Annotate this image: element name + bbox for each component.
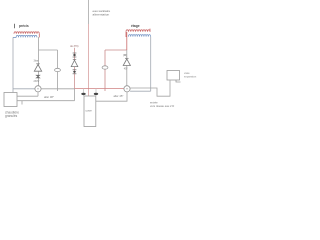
wire: left bypass vertical xyxy=(57,50,59,91)
expansion vessel box xyxy=(167,71,180,81)
svg-text:étage: étage xyxy=(131,24,140,28)
svg-text:précis: précis xyxy=(19,24,29,28)
svg-text:3bar: 3bar xyxy=(34,60,39,63)
boiler (chaudiere granules box) xyxy=(4,93,17,107)
check valve (triangle) right column xyxy=(125,57,129,59)
wire: right bypass red vertical xyxy=(104,50,106,91)
wire: red drop from loop right end to valve column xyxy=(38,34,40,38)
shutoff valve (bowtie) left column xyxy=(35,75,41,77)
svg-text:vers réseau eau 2 D: vers réseau eau 2 D xyxy=(150,104,174,108)
heating loop right (flow, red comb) xyxy=(126,30,150,32)
pump P1 (left circle) xyxy=(35,86,41,92)
heating loop left (flow, red comb) xyxy=(14,32,39,34)
wire: right circuit column red top xyxy=(126,32,128,50)
svg-text:aller 45°: aller 45° xyxy=(114,94,124,98)
wire: left return pipe down xyxy=(12,37,14,89)
svg-text:(M): (M) xyxy=(123,53,127,57)
wire: tank stub right (faint) xyxy=(95,89,97,96)
valve (dark bowtie) tank stub right xyxy=(94,93,98,95)
valve (bowtie) middle bottom xyxy=(73,69,77,71)
wire: boiler lower port to mixing column xyxy=(17,100,75,102)
heating loop right (return, blue comb) xyxy=(129,35,151,37)
wire: tank stub left (faint) xyxy=(83,89,85,96)
wire: boiler upper port to pump xyxy=(17,95,38,97)
wire: tank right port to right pump bottom xyxy=(96,92,127,101)
wire: right return pipe down xyxy=(150,37,152,92)
wire: red drop from loop left end to column xyxy=(125,32,128,37)
pump P2 (right circle) xyxy=(124,86,130,92)
wire: return to right pump xyxy=(130,90,151,92)
wire: vessel bottom-right tick xyxy=(176,80,181,82)
svg-text:expansion: expansion xyxy=(184,75,197,79)
buffer tank (cuve) xyxy=(84,96,96,127)
svg-text:entrée: entrée xyxy=(150,101,158,105)
wire: blue stub to left return pipe xyxy=(13,36,16,38)
heating loop left (return, blue comb) xyxy=(16,35,37,37)
svg-text:230V: 230V xyxy=(34,80,40,83)
wire: main header grey part xyxy=(41,88,75,90)
wire: middle column grey (below main) xyxy=(74,89,76,101)
svg-text:45°: 45° xyxy=(124,68,128,71)
wire: right circuit column xyxy=(126,50,128,85)
safety valve (triangle) left column xyxy=(36,63,40,65)
wire: pump bottom stub xyxy=(37,92,39,96)
svg-text:alimentation: alimentation xyxy=(93,13,110,17)
wire: main header red part xyxy=(75,88,124,90)
valve (bowtie) middle top xyxy=(73,52,77,54)
svg-text:cuve: cuve xyxy=(86,109,93,113)
svg-text:de (P6): de (P6) xyxy=(70,44,79,48)
wire: header to expansion vessel xyxy=(130,81,170,97)
label: left radiator name xyxy=(14,24,16,28)
wire: left circuit column xyxy=(38,37,40,86)
valve (dark bowtie) tank stub left xyxy=(81,93,85,95)
svg-text:aller 38°: aller 38° xyxy=(44,95,54,99)
wire: cold water supply vertical (top center) xyxy=(88,0,90,24)
wire: red hook at right end of loop xyxy=(149,29,151,32)
boiler drain tick xyxy=(21,101,23,105)
wire: left bypass branch horizontal xyxy=(39,49,58,51)
svg-text:granulés: granulés xyxy=(5,114,18,118)
wire: middle column red (above main) xyxy=(74,48,76,89)
balancing valve (ellipse) left bypass xyxy=(55,68,61,71)
check valve (triangle) middle xyxy=(73,58,76,60)
wire: hot water riser (red, center) xyxy=(88,24,90,96)
wire: left return into boiler top xyxy=(12,89,14,93)
balancing valve (ellipse) right bypass xyxy=(102,66,108,69)
wire: return to pump left xyxy=(13,88,35,90)
wire: right bypass red horizontal xyxy=(105,49,127,51)
